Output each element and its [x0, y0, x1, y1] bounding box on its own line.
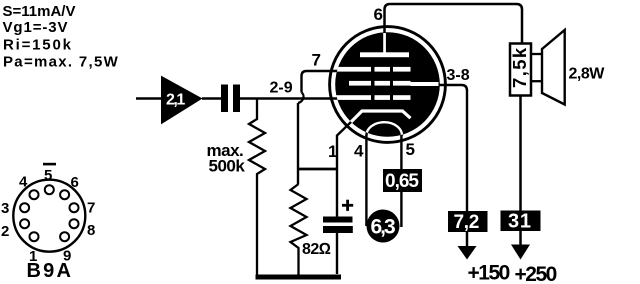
svg-text:Ri=150k: Ri=150k	[3, 36, 73, 53]
bypass capacitor lower wire	[336, 233, 338, 274]
bypass capacitor bottom plate	[323, 226, 353, 233]
anode current box 31	[501, 211, 541, 232]
speaker	[542, 30, 565, 105]
socket pin 1	[30, 232, 39, 241]
B9A socket circle	[13, 180, 85, 252]
grid g1 wire to tube	[240, 97, 339, 99]
svg-text:2,8W: 2,8W	[569, 66, 606, 83]
coupling capacitor plate right	[233, 85, 240, 113]
socket pin 5	[45, 185, 54, 194]
socket pin 9	[60, 232, 69, 241]
grid g1 dashes	[335, 95, 371, 100]
svg-text:B9A: B9A	[27, 260, 74, 282]
wire triangle to capacitor	[202, 97, 221, 99]
socket pin 2	[20, 219, 29, 228]
socket pin 3	[20, 203, 29, 212]
ground rail	[256, 275, 342, 280]
socket pin 6	[60, 190, 69, 199]
grid resistor 500k	[249, 99, 265, 277]
input wire	[136, 97, 161, 99]
bypass capacitor top plate	[323, 217, 353, 223]
grid g2 dashes	[349, 81, 371, 86]
socket index mark	[43, 163, 56, 166]
heater wire pin 4	[365, 135, 367, 226]
speaker lead bottom	[531, 80, 542, 82]
svg-text:+150: +150	[468, 262, 510, 284]
svg-text:Vg1=-3V: Vg1=-3V	[3, 19, 69, 36]
anode lead	[383, 33, 386, 53]
svg-text:500k: 500k	[209, 157, 246, 176]
arrow to +250	[519, 231, 522, 246]
input transducer triangle	[161, 76, 203, 125]
bypass capacitor plus sign	[342, 204, 353, 207]
svg-text:31: 31	[508, 211, 532, 233]
heater arc	[366, 122, 402, 135]
svg-text:0,65: 0,65	[385, 171, 419, 192]
cathode wire pin 1	[337, 122, 352, 218]
svg-text:2-9: 2-9	[270, 80, 293, 97]
heater arc white part	[366, 122, 402, 135]
svg-text:4: 4	[354, 142, 364, 161]
svg-text:3-8: 3-8	[447, 67, 470, 84]
svg-text:7,5k: 7,5k	[509, 46, 530, 88]
svg-text:7,2: 7,2	[454, 212, 480, 233]
screen g2 wire to 3-8	[437, 85, 467, 211]
svg-text:1: 1	[328, 142, 337, 161]
heater voltage circle 6,3	[367, 210, 400, 243]
socket pin 7	[70, 203, 79, 212]
g3 wire from pin 7	[302, 71, 340, 93]
svg-text:5: 5	[44, 167, 52, 184]
crossover hop	[298, 93, 304, 104]
socket pin 4	[30, 190, 39, 199]
svg-text:8: 8	[87, 222, 95, 239]
svg-text:6: 6	[71, 174, 79, 191]
svg-text:Pa=max. 7,5W: Pa=max. 7,5W	[3, 54, 119, 71]
svg-text:7: 7	[87, 199, 95, 216]
grid g3 dashes	[335, 67, 371, 72]
cathode resistor 82 ohm	[291, 184, 307, 276]
anode plate	[360, 52, 409, 57]
output transformer 7,5k	[510, 44, 531, 96]
cathode	[351, 111, 411, 123]
svg-text:3: 3	[1, 200, 9, 217]
arrow to +150	[466, 232, 469, 247]
tube black interior	[335, 32, 440, 137]
g3 wire down to cathode junction	[297, 103, 299, 184]
svg-text:82Ω: 82Ω	[302, 241, 331, 258]
heater wire pin 5 upper	[400, 135, 402, 169]
anode wire pin 6 to transformer	[385, 4, 523, 44]
grid g2 lead right	[411, 82, 439, 86]
coupling capacitor plate left	[221, 85, 228, 113]
tube envelope	[330, 27, 446, 143]
svg-text:+250: +250	[515, 263, 557, 284]
junction wire g3 to cathode	[297, 168, 338, 171]
svg-text:S=11mA/V: S=11mA/V	[3, 3, 76, 20]
svg-text:2,1: 2,1	[166, 92, 185, 109]
svg-text:7: 7	[312, 51, 321, 70]
screen current box 7,2	[448, 211, 488, 232]
heater wire pin 5 lower	[400, 192, 402, 228]
svg-text:6: 6	[374, 5, 383, 24]
socket pin 8	[70, 219, 79, 228]
svg-text:6,3: 6,3	[371, 216, 396, 239]
svg-text:5: 5	[406, 140, 415, 159]
heater current box 0,65	[383, 169, 422, 192]
svg-text:2: 2	[1, 223, 9, 240]
anode supply wire below transformer	[519, 96, 522, 211]
speaker lead top	[531, 53, 542, 55]
svg-text:4: 4	[19, 174, 28, 191]
